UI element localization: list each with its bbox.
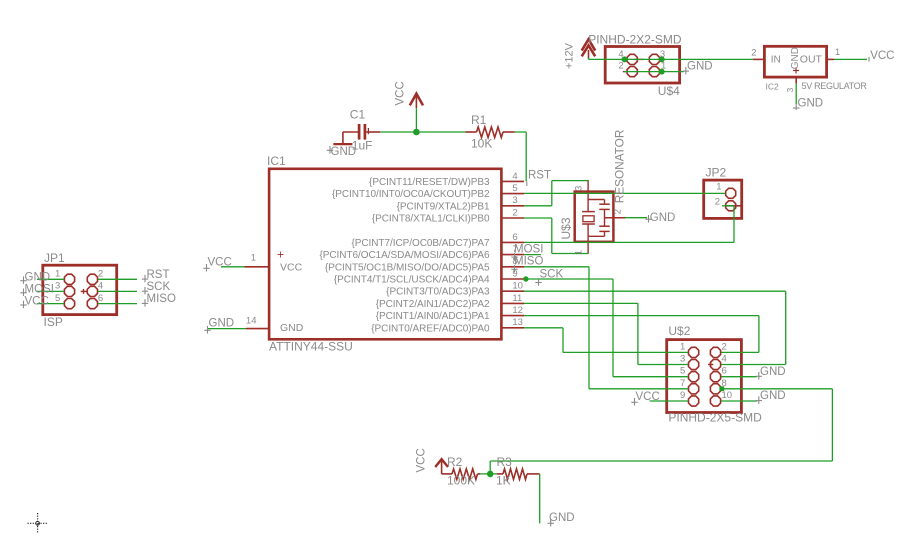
svg-text:R3: R3 xyxy=(497,455,513,469)
svg-text:5: 5 xyxy=(512,183,517,194)
IC1 pin 7 stub xyxy=(501,254,524,256)
IC1 pin 1 stub xyxy=(245,266,270,268)
IC1 pin 1 number xyxy=(251,253,256,264)
IC1 pin 12 number xyxy=(512,305,523,316)
svg-text:VCC: VCC xyxy=(636,391,660,403)
capacitor C1 xyxy=(359,124,380,140)
net label GND at IC2 xyxy=(793,98,823,111)
wire SCK from JP1 pin 4 xyxy=(98,290,137,292)
svg-text:VCC: VCC xyxy=(25,296,49,308)
R1 designator label xyxy=(471,113,487,127)
resonator pin 3 stub xyxy=(587,180,589,212)
svg-text:{PCINT3/T0/ADC3)PA3: {PCINT3/T0/ADC3)PA3 xyxy=(386,287,490,298)
IC2 label IN xyxy=(771,55,781,66)
svg-text:2: 2 xyxy=(751,48,756,59)
junction at U$4 pin 3 xyxy=(659,56,665,62)
wire VCC from IC2 OUT xyxy=(834,58,867,60)
IC1 pin 2 stub xyxy=(501,217,524,219)
svg-text:14: 14 xyxy=(246,315,257,326)
U$2 pin 4 stub cross xyxy=(708,362,713,367)
IC1 pin 11 name xyxy=(376,299,490,310)
IC2 pin 3 plus mark xyxy=(793,68,799,74)
U$4 pin pads xyxy=(627,54,659,76)
svg-text:{PCINT1/AIN0/ADC1)PA1: {PCINT1/AIN0/ADC1)PA1 xyxy=(376,311,490,322)
IC1 pin 6 number xyxy=(512,232,517,243)
U$4 designator label xyxy=(658,84,680,98)
VCC label rotated at top xyxy=(395,81,407,105)
wire MISO from JP1 pin 6 xyxy=(98,303,137,305)
junction between R2 and R3 xyxy=(487,471,494,478)
svg-text:6: 6 xyxy=(98,293,103,304)
IC1 pin 6 name xyxy=(351,238,490,249)
junction at IC1 pin 9 xyxy=(523,276,528,281)
R2 designator label xyxy=(447,455,463,469)
wire GND at U$2 pin 6 xyxy=(721,376,757,378)
svg-text:GND: GND xyxy=(549,512,575,524)
IC1 pin 8 number xyxy=(512,256,517,267)
IC1 pin 8 stub xyxy=(501,266,524,268)
svg-text:U$3: U$3 xyxy=(559,217,573,239)
svg-text:12: 12 xyxy=(512,305,523,316)
wire MOSI at IC1 pin 7 xyxy=(524,254,541,256)
svg-text:+: + xyxy=(277,248,284,262)
JP1 value ISP xyxy=(44,315,63,329)
svg-text:IN: IN xyxy=(771,55,781,66)
IC1 pin 13 number xyxy=(512,317,523,328)
svg-text:VCC: VCC xyxy=(395,81,407,105)
net label GND at JP1 pin 1 xyxy=(20,271,50,284)
svg-text:2: 2 xyxy=(613,209,624,214)
connector JP1 box xyxy=(43,265,117,314)
IC1 pin 10 name xyxy=(386,287,490,298)
svg-text:5: 5 xyxy=(55,293,60,304)
wire +12V through U$4 to regulator xyxy=(589,58,754,59)
wire IC1 pin 2 to resonator pin 1 xyxy=(524,218,588,254)
IC1 pin 12 stub xyxy=(501,315,524,317)
junction at VCC top xyxy=(413,129,420,136)
svg-text:VCC: VCC xyxy=(870,50,894,62)
VCC label rotated bottom xyxy=(416,448,428,472)
R3 designator label xyxy=(497,455,513,469)
svg-text:2: 2 xyxy=(512,207,517,218)
svg-text:4: 4 xyxy=(512,171,517,182)
U$2 designator label xyxy=(668,324,690,338)
svg-text:3: 3 xyxy=(785,88,795,93)
svg-text:4: 4 xyxy=(98,281,103,292)
svg-text:11: 11 xyxy=(512,293,522,304)
wire GND at U$4 bottom row xyxy=(624,71,684,73)
net label RST at JP1 xyxy=(142,269,170,283)
connector U$4 box xyxy=(605,47,679,84)
IC1 pin 10 number xyxy=(512,281,523,292)
net label GND at IC1 pin 14 xyxy=(204,318,234,334)
wire VCC stem top xyxy=(415,108,417,132)
IC2 pin 2 stub xyxy=(753,58,764,60)
svg-text:{PCINT8/XTAL1/CLKI)PB0: {PCINT8/XTAL1/CLKI)PB0 xyxy=(372,214,490,225)
wire IC1 pin 3 to resonator pin 3 xyxy=(524,181,588,206)
svg-text:{PCINT6/OC1A/SDA/MOSI/ADC6)PA6: {PCINT6/OC1A/SDA/MOSI/ADC6)PA6 xyxy=(319,250,490,261)
svg-text:3: 3 xyxy=(512,195,517,206)
wire C1 to R1 net xyxy=(380,131,465,133)
svg-text:10: 10 xyxy=(512,281,523,292)
svg-text:9: 9 xyxy=(680,390,685,401)
U$4 pin numbers xyxy=(618,49,666,72)
wire GND at U$2 pin 10 xyxy=(721,400,757,402)
resonator internal capacitor 2 xyxy=(599,218,609,237)
IC2 pin 2 number xyxy=(751,48,756,59)
svg-text:100K: 100K xyxy=(447,474,475,488)
svg-text:U$2: U$2 xyxy=(668,324,690,338)
svg-text:{PCINT2/AIN1/ADC2)PA2: {PCINT2/AIN1/ADC2)PA2 xyxy=(376,299,490,310)
svg-text:4: 4 xyxy=(722,354,727,365)
svg-text:OUT: OUT xyxy=(800,54,823,66)
resistor R1 stubs xyxy=(465,131,514,133)
svg-text:{PCINT10/INT0/OC0A/CKOUT)PB2: {PCINT10/INT0/OC0A/CKOUT)PB2 xyxy=(332,189,490,200)
IC1 pin 3 name xyxy=(397,201,490,212)
resistor R1 xyxy=(477,127,504,138)
svg-text:5V REGULATOR: 5V REGULATOR xyxy=(802,81,868,91)
IC1 designator label xyxy=(267,154,286,168)
wire U$2 pin 8 to R2 R3 junction xyxy=(490,389,832,474)
svg-text:GND: GND xyxy=(209,318,235,330)
svg-text:IC1: IC1 xyxy=(267,154,286,168)
svg-text:{PCINT7/ICP/OC0B/ADC7)PA7: {PCINT7/ICP/OC0B/ADC7)PA7 xyxy=(351,238,490,249)
RESONATOR value rotated xyxy=(613,130,627,204)
IC2 pin 1 stub xyxy=(827,58,834,60)
R3 value 1K xyxy=(496,474,511,488)
IC1 pin 5 stub xyxy=(501,193,524,195)
IC1 pin 10 stub xyxy=(501,290,524,292)
connector U$2 box xyxy=(667,340,742,413)
JP1 label xyxy=(44,251,65,265)
IC1 pin 6 stub xyxy=(501,241,524,243)
wire VCC to JP1 pin 5 xyxy=(37,303,64,305)
svg-text:ISP: ISP xyxy=(44,315,63,329)
IC1 VCC plus mark xyxy=(277,248,284,262)
net label RST at IC1 pin 4 xyxy=(527,169,551,186)
wire IC1 pin 13 to U$2 pin 1 xyxy=(524,328,688,353)
IC1 internal label GND xyxy=(280,322,304,334)
resonator pin 2 label xyxy=(613,209,624,214)
IC1 value ATTINY44-SSU xyxy=(269,339,353,353)
wire C1 left to GND xyxy=(333,132,359,144)
resistor R2 right stub xyxy=(478,473,481,475)
svg-text:GND: GND xyxy=(280,322,304,334)
IC IC2 regulator box xyxy=(764,46,826,77)
U$4 value PINHD-2X2-SMD xyxy=(588,33,682,47)
svg-text:ATTINY44-SSU: ATTINY44-SSU xyxy=(269,339,353,353)
resonator top rail xyxy=(588,199,604,201)
wire GND to IC1 pin 14 xyxy=(208,328,246,330)
net label GND at U$2 pin 6 xyxy=(756,366,786,380)
net label MOSI at IC1 xyxy=(511,244,543,261)
net label SCK at JP1 xyxy=(142,281,171,295)
svg-text:GND: GND xyxy=(798,98,824,110)
svg-text:C1: C1 xyxy=(350,107,366,121)
resistor R3 left stub xyxy=(497,473,503,475)
resonator pin 1 stub xyxy=(587,236,589,254)
IC1 pin 12 name xyxy=(376,311,490,322)
IC2 pin 3 number rotated xyxy=(785,88,795,93)
wire R2 to junction xyxy=(480,473,490,475)
svg-text:3: 3 xyxy=(574,186,585,191)
svg-text:SCK: SCK xyxy=(540,268,564,280)
U$2 pin numbers xyxy=(680,341,732,401)
IC1 pin 3 stub xyxy=(501,205,524,207)
resistor R3 xyxy=(503,469,527,480)
svg-text:7: 7 xyxy=(680,378,685,389)
net label GND at U$2 pin 10 xyxy=(756,390,786,404)
svg-text:1: 1 xyxy=(716,182,721,193)
svg-text:3: 3 xyxy=(660,49,665,60)
U$2 pin pads xyxy=(689,347,721,406)
resonator pin 3 label xyxy=(574,186,585,191)
JP1 pin numbers xyxy=(55,269,103,304)
svg-text:2: 2 xyxy=(618,61,623,72)
svg-text:MOSI: MOSI xyxy=(514,244,543,256)
wire VCC to R2 xyxy=(442,473,452,475)
resonator bottom rail xyxy=(588,235,604,237)
net label VCC at IC1 pin 1 xyxy=(203,257,231,272)
svg-text:1: 1 xyxy=(251,253,256,264)
net label MOSI at JP1 pin 3 xyxy=(20,283,54,296)
svg-text:8: 8 xyxy=(722,378,727,389)
R2 value 100K xyxy=(447,474,475,488)
net label MISO at JP1 xyxy=(142,293,176,307)
wire IC1 pin 10 to U$2 pin 4 xyxy=(524,291,786,364)
svg-text:GND: GND xyxy=(331,146,357,158)
IC1 pin 4 number xyxy=(512,171,517,182)
svg-text:1: 1 xyxy=(835,47,840,58)
wire R1 to RST corner xyxy=(515,132,527,181)
svg-text:VCC: VCC xyxy=(208,257,232,269)
svg-text:1: 1 xyxy=(574,250,585,255)
JP2 designator label xyxy=(706,166,727,180)
IC1 pin 9 number xyxy=(512,268,517,279)
svg-text:1: 1 xyxy=(55,269,60,280)
resistor R2 xyxy=(452,469,478,480)
svg-text:PINHD-2X2-SMD: PINHD-2X2-SMD xyxy=(588,33,682,47)
svg-text:RESONATOR: RESONATOR xyxy=(613,130,627,204)
svg-text:+12V: +12V xyxy=(564,42,576,69)
svg-text:GND: GND xyxy=(687,61,713,73)
svg-text:{PCINT0/AREF/ADC0)PA0: {PCINT0/AREF/ADC0)PA0 xyxy=(371,323,490,334)
IC2 designator label xyxy=(766,82,780,92)
wire junction to R3 xyxy=(490,473,497,475)
resonator crystal xyxy=(582,212,595,237)
svg-text:GND: GND xyxy=(25,271,51,283)
IC1 pin 5 name xyxy=(332,189,490,200)
C1 value 1uF xyxy=(352,138,373,152)
IC1 pin 5 number xyxy=(512,183,517,194)
net label GND at U$4 xyxy=(683,61,713,75)
wire GND at resonator pin 2 xyxy=(625,217,647,219)
JP2 pin pads xyxy=(726,188,736,211)
wire GND at IC2 pin 3 xyxy=(795,84,797,104)
IC1 pin 14 number xyxy=(246,315,257,326)
net label GND at R3 xyxy=(548,512,575,527)
svg-text:{PCINT4/T1/SCL/USCK/ADC4)PA4: {PCINT4/T1/SCL/USCK/ADC4)PA4 xyxy=(334,275,490,286)
svg-text:5: 5 xyxy=(680,366,685,377)
svg-text:RST: RST xyxy=(147,269,170,281)
svg-text:13: 13 xyxy=(512,317,523,328)
svg-text:IC2: IC2 xyxy=(766,82,780,92)
net label VCC at JP1 pin 5 xyxy=(20,296,48,309)
IC IC1 box xyxy=(269,169,501,339)
resonator pin 2 stub xyxy=(605,217,626,219)
svg-text:{PCINT9/XTAL2)PB1: {PCINT9/XTAL2)PB1 xyxy=(397,201,490,212)
wire VCC at U$2 pin 9 xyxy=(650,400,689,402)
IC1 internal label VCC xyxy=(280,262,303,274)
IC1 pin 11 stub xyxy=(501,302,524,304)
IC1 pin 9 stub xyxy=(501,278,524,280)
IC2 value 5V REGULATOR xyxy=(802,81,868,91)
IC1 pin 2 number xyxy=(512,207,517,218)
power symbol VCC bottom xyxy=(435,459,448,474)
svg-text:2: 2 xyxy=(715,197,720,208)
svg-text:VCC: VCC xyxy=(280,262,303,274)
power symbol VCC top xyxy=(410,94,423,109)
svg-text:1: 1 xyxy=(680,341,685,352)
IC1 pin 7 number xyxy=(512,244,517,255)
svg-text:MISO: MISO xyxy=(514,256,543,268)
IC1 pin 13 stub xyxy=(501,327,524,329)
IC1 pin 4 stub xyxy=(501,180,524,182)
svg-text:MOSI: MOSI xyxy=(25,283,54,295)
svg-text:6: 6 xyxy=(722,366,727,377)
IC1 pin 7 name xyxy=(319,250,490,261)
junction at U$2 pin 8 xyxy=(719,386,724,391)
IC1 pin 9 name xyxy=(334,275,490,286)
svg-text:{PCINT5/OC1B/MISO/DO/ADC5)PA5: {PCINT5/OC1B/MISO/DO/ADC5)PA5 xyxy=(325,262,490,273)
svg-text:1K: 1K xyxy=(496,474,511,488)
resonator pin 1 label xyxy=(574,250,585,255)
IC1 pin 3 number xyxy=(512,195,517,206)
wire MISO IC1 pin 8 to U$2 pin 7 xyxy=(524,267,688,389)
IC2 pin 3 stub xyxy=(795,77,797,84)
IC1 pin 8 name xyxy=(325,262,490,273)
svg-text:MISO: MISO xyxy=(147,293,176,305)
svg-text:GND: GND xyxy=(650,212,676,224)
IC1 pin 14 stub xyxy=(246,328,269,330)
wire R3 to GND xyxy=(539,474,541,524)
svg-text:SCK: SCK xyxy=(147,281,171,293)
svg-text:VCC: VCC xyxy=(416,448,428,472)
IC1 pin 2 name xyxy=(372,214,490,225)
net label SCK at IC1 xyxy=(535,268,563,285)
JP2 pin numbers xyxy=(715,182,722,208)
svg-text:{PCINT11/RESET/DW)PB3: {PCINT11/RESET/DW)PB3 xyxy=(369,177,490,188)
junction at U$4 pin 1 xyxy=(659,69,665,75)
R1 value 10K xyxy=(471,136,492,150)
IC1 pin 13 name xyxy=(371,323,490,334)
svg-text:RST: RST xyxy=(528,169,551,181)
wire IC1 pin 6 to JP2 pin 2 xyxy=(524,206,734,243)
svg-text:1: 1 xyxy=(661,61,666,72)
svg-text:10: 10 xyxy=(722,390,733,401)
resistor R3 right stub xyxy=(527,473,540,475)
svg-text:PINHD-2X5-SMD: PINHD-2X5-SMD xyxy=(668,411,762,425)
wire IC1 pin 12 to U$2 pin 2 xyxy=(524,316,759,353)
svg-text:2: 2 xyxy=(722,341,727,352)
net label MISO at IC1 xyxy=(511,256,543,273)
IC2 label OUT xyxy=(800,54,823,66)
svg-text:4: 4 xyxy=(618,49,623,60)
wire VCC to IC1 pin 1 xyxy=(221,266,245,268)
power symbol +12V xyxy=(582,39,596,58)
junction at U$4 pin 4 xyxy=(622,56,628,62)
wire RST from JP1 pin 2 xyxy=(98,278,137,280)
C1 designator label xyxy=(350,107,366,121)
JP1 pin pads xyxy=(64,274,97,309)
svg-text:10K: 10K xyxy=(471,136,492,150)
U$2 value PINHD-2X5-SMD xyxy=(668,411,762,425)
JP1 pin 3 stub cross xyxy=(81,289,87,294)
svg-text:R1: R1 xyxy=(471,113,487,127)
resonator internal capacitor 1 xyxy=(599,200,609,218)
svg-text:JP2: JP2 xyxy=(706,166,727,180)
IC1 pin 11 number xyxy=(512,293,522,304)
svg-text:6: 6 xyxy=(512,232,517,243)
svg-text:JP1: JP1 xyxy=(44,251,65,265)
svg-text:GND: GND xyxy=(760,366,786,378)
resonator U$3 box xyxy=(575,192,614,242)
net label VCC at U$2 pin 9 xyxy=(631,391,659,406)
svg-text:3: 3 xyxy=(680,354,685,365)
IC1 pin 4 name xyxy=(369,177,490,188)
wire GND to JP1 pin 1 xyxy=(37,278,64,280)
svg-text:3: 3 xyxy=(55,281,60,292)
svg-text:GND: GND xyxy=(760,390,786,402)
wire IC1 pin 5 to JP2 pin 1 xyxy=(524,192,725,194)
origin cross mark xyxy=(28,513,49,534)
U$3 designator rotated xyxy=(559,217,573,239)
U$4 pin stubs xyxy=(623,59,644,71)
connector JP2 box xyxy=(704,180,742,218)
wire SCK IC1 pin 9 to U$2 pin 5 xyxy=(524,279,688,377)
net label VCC at IC2 output xyxy=(869,50,894,62)
IC2 label GND rotated xyxy=(790,47,801,69)
wire MOSI to JP1 pin 3 xyxy=(37,290,64,292)
svg-text:R2: R2 xyxy=(447,455,463,469)
net label GND at resonator xyxy=(645,212,675,224)
svg-text:U$4: U$4 xyxy=(658,84,680,98)
JP2 pin 2 stub xyxy=(725,205,741,207)
IC2 pin 1 number xyxy=(835,47,840,58)
+12V label rotated xyxy=(564,42,576,69)
svg-text:2: 2 xyxy=(98,269,103,280)
wire IC1 pin 11 to U$2 pin 3 xyxy=(524,303,688,364)
net label GND at C1 xyxy=(327,146,356,158)
